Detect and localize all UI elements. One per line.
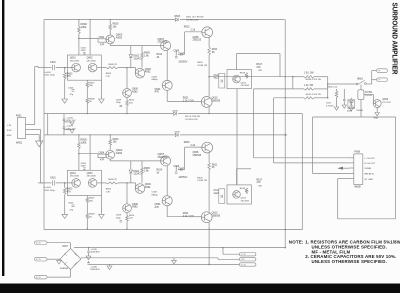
svg-text:1u,50V: 1u,50V (44, 187, 51, 189)
P608 pin stubs (349, 157, 354, 159)
svg-text:47P: 47P (100, 159, 105, 162)
wire AC1 to bridge (47, 242, 71, 244)
vertical x=253.5 to P608 pin1 (253, 89, 255, 158)
ground at AC2 (58, 259, 60, 260)
svg-text:2SD525: 2SD525 (193, 39, 202, 42)
svg-text:D605: D605 (175, 16, 181, 18)
resistor R602B 100k (78, 142, 81, 149)
wire cap to base (56, 182, 72, 184)
svg-text:2SB595: 2SB595 (212, 99, 221, 102)
svg-text:100p: 100p (116, 102, 122, 104)
wire Q610B collector to rail (208, 223, 210, 229)
svg-text:0.10R 1W: 0.10R 1W (197, 65, 208, 67)
wire to P608 pin5 y=178.6 (338, 178, 350, 180)
svg-text:L IN: L IN (7, 125, 11, 127)
P608 pin 3 arrow (337, 167, 343, 170)
capacitor C605B 47p (72, 205, 75, 206)
transistor Q607A 2SC2911 (161, 41, 171, 51)
svg-text:2SC1845: 2SC1845 (87, 60, 97, 62)
svg-text:M601: M601 (357, 79, 363, 81)
wire AC3 to bridge (47, 276, 71, 278)
loop bottom wire y=218.8 (338, 218, 396, 220)
ground on center rail (173, 258, 175, 261)
wire emitter Q602A to current mirror y=45.6 (109, 44, 111, 46)
svg-text:1.2k, 5W: 1.2k, 5W (304, 85, 314, 87)
svg-text:P601: P601 (16, 114, 22, 117)
emitter resistors R607 R608 A (86, 80, 88, 82)
power pill V- (239, 263, 256, 266)
ground C635 (86, 256, 91, 260)
wire VAS output channel B y=168.8 (237, 168, 251, 170)
transistor Q602A A992 (106, 35, 115, 44)
svg-text:47K: 47K (67, 75, 72, 78)
svg-text:R IN: R IN (7, 130, 12, 132)
svg-text:2SC2911: 2SC2911 (158, 41, 168, 44)
power pill GND (239, 258, 256, 261)
output junction x=327.7 (327, 77, 329, 98)
wire base bias y=38.4 (79, 153, 98, 155)
svg-text:0.10R 1W: 0.10R 1W (197, 180, 208, 182)
wire cap to base (56, 67, 72, 69)
svg-text:C7K: C7K (106, 76, 111, 78)
svg-text:2SC1845: 2SC1845 (241, 85, 250, 87)
wire V+ feed x=90.1 (89, 135, 91, 170)
wire to P608 pin4 y=173.5 (313, 173, 350, 175)
emitter resistor wire C y=97.8 (274, 97, 304, 99)
ground R640 (334, 107, 338, 110)
input wire (38, 182, 52, 184)
svg-text:C608: C608 (152, 76, 158, 78)
output node wire y=76.7 channel A (209, 76, 293, 78)
svg-text:2.2k: 2.2k (191, 29, 196, 32)
channel A: wire V+ feed x=78.9 (78, 20, 80, 27)
bridge rectifier D607 (60, 249, 81, 270)
wire coil to Q605 (364, 94, 374, 96)
capacitor C604B (boxed film) (98, 154, 106, 157)
ground right leg B (99, 214, 105, 218)
svg-text:C608: C608 (152, 192, 158, 194)
transistor Q612B bias 2SC1845 (233, 191, 241, 199)
svg-text:A78: A78 (155, 206, 160, 209)
svg-text:6DBN44: 6DBN44 (60, 268, 69, 270)
wire bias box top (236, 54, 238, 70)
channel B V+ rail y=134.9 (44, 134, 175, 136)
svg-text:1u,50V: 1u,50V (44, 72, 51, 74)
ground arrow below P601 (38, 135, 40, 142)
transistor Q607B 2SC2911 (161, 156, 171, 166)
input dropper channel B x=40.6 (40, 130, 42, 183)
svg-text:R610: R610 (129, 100, 135, 102)
ground C620 (64, 121, 72, 123)
svg-text:R640 2.2k: R640 2.2k (327, 86, 338, 88)
svg-text:1.8k: 1.8k (144, 54, 149, 57)
svg-text:8200/63V: 8200/63V (90, 252, 100, 254)
transistor Q601B 2SC1845 (72, 179, 81, 188)
output column x=209.1 (208, 38, 210, 47)
wire Q610A collector to rail (208, 107, 210, 113)
svg-text:2.2k 1/2W: 2.2k 1/2W (183, 215, 195, 218)
svg-text:RY601: RY601 (365, 92, 373, 94)
svg-text:C605: C605 (68, 87, 74, 89)
transistor Q603A 2SC1845 (88, 63, 97, 72)
svg-text:R604: R604 (106, 73, 112, 75)
svg-text:R641 4.22k 1W: R641 4.22k 1W (306, 94, 322, 96)
resistor R630A 10k on collector (109, 20, 111, 24)
scan artifact: black bar bottom (0, 284, 400, 293)
transistor Q605 relay driver (373, 100, 381, 108)
svg-text:C607: C607 (178, 52, 184, 55)
svg-text:+C635: +C635 (90, 249, 97, 251)
svg-text:R609 7K: R609 7K (109, 179, 118, 181)
svg-text:47K: 47K (258, 185, 262, 187)
svg-text:R639 4.22k 1W: R639 4.22k 1W (306, 79, 322, 81)
transistor Q608B output NPN (202, 142, 213, 153)
svg-text:1.8k: 1.8k (144, 170, 149, 173)
wire diff box right leg (100, 80, 102, 99)
wire base Q610A (188, 100, 201, 102)
transistor Q609B A992 (135, 183, 137, 189)
speaker feed wire y=84 (328, 83, 356, 85)
vertical x=302.3 bus1 to bus3 (301, 114, 303, 230)
svg-text:A992: A992 (145, 71, 151, 74)
signal wire to VAS (97, 182, 106, 184)
relay supply wire y=117 (313, 116, 396, 118)
scan artifact: black strip left edge (2, 0, 4, 276)
svg-text:C602 100p: C602 100p (44, 190, 55, 192)
svg-text:100p: 100p (116, 218, 122, 220)
loop vertical x=337.7 (337, 179, 339, 219)
svg-text:1.0U, 5W: 1.0U, 5W (304, 73, 314, 75)
diode D605 on V+ rail (175, 18, 178, 21)
transistor Q603B 2SC1845 (88, 179, 97, 188)
mains pill connector AC1 (35, 241, 48, 245)
resistor R603B 47K to ground (64, 183, 66, 188)
capacitor C635 8200/63V (88, 248, 90, 251)
wire to terminal CN2 (372, 79, 377, 81)
diode block D604 (boxed) (348, 100, 355, 109)
terminal riser x=371.7 (371, 71, 373, 84)
transistor Q604A driver PNP (162, 80, 172, 90)
svg-text:1S2473: 1S2473 (133, 57, 142, 60)
svg-text:L CH OUT: L CH OUT (365, 158, 376, 160)
svg-text:+C621: +C621 (66, 126, 73, 128)
channel B: wire V+ feed x=78.9 (78, 135, 80, 142)
wire Q607 to Q604 A (166, 51, 168, 81)
ground D611 (349, 108, 353, 111)
capacitor C601A input 1uF (53, 65, 55, 70)
svg-text:+C620: +C620 (66, 117, 73, 119)
svg-text:UNLESS OTHERWISE SPECIFIED.: UNLESS OTHERWISE SPECIFIED. (312, 259, 387, 264)
negative rail y=264.4 (89, 263, 240, 265)
transistor Q609A A992 (135, 68, 137, 74)
svg-text:1S2473: 1S2473 (133, 173, 142, 176)
svg-text:R CH OUT: R CH OUT (365, 163, 376, 165)
transistor Q610A output PNP (201, 97, 212, 108)
vertical x=273.6 to P608 pin2 (273, 98, 275, 163)
wire bias box top (236, 169, 238, 185)
svg-text:2SD525: 2SD525 (193, 154, 202, 157)
P601 pin stubs (26, 124, 35, 126)
jog to pill V+ (222, 248, 224, 255)
resistor R611B 56 (208, 162, 211, 170)
center rail y=257.8 (81, 257, 218, 259)
transistor Q612A bias 2SC1845 (233, 75, 241, 83)
capacitor C621 47u decoupling (63, 127, 66, 128)
wire AC2 to bridge (47, 258, 60, 260)
output column x=209.1 (208, 153, 210, 162)
svg-text:C601: C601 (50, 177, 56, 180)
capacitor C620 47u decoupling (63, 114, 65, 135)
resistor R609B 7K in line (106, 182, 118, 184)
wire base Q608B (185, 146, 202, 148)
svg-text:R619: R619 (240, 188, 246, 190)
wire Q604 emitter A (166, 90, 168, 101)
wire base Q608A (185, 31, 202, 33)
V+ rail top y=19.6 (44, 19, 175, 21)
svg-text:8200/63V: 8200/63V (90, 269, 100, 271)
vertical x=312.6 relay feed (312, 117, 314, 174)
svg-text:C6 3W 6.2W: C6 3W 6.2W (185, 119, 198, 121)
svg-text:W601: W601 (16, 142, 23, 145)
capacitor C604A (boxed film) (98, 39, 106, 42)
svg-text:100k: 100k (81, 140, 87, 144)
resistor R605A 1.8k (141, 46, 143, 52)
svg-text:R623: R623 (184, 141, 190, 144)
svg-text:C609: C609 (116, 215, 122, 217)
wire base Q610B (188, 216, 201, 218)
connector P601 (input) (18, 118, 26, 139)
node base bias (78, 153, 80, 155)
power pill V+ (239, 253, 256, 256)
capacitor C606B (178, 169, 185, 171)
transistor Q610B output PNP (201, 212, 212, 223)
svg-text:+C636: +C636 (90, 266, 97, 268)
wire contact to terminals (366, 83, 372, 85)
wire to terminal CN1 (372, 70, 377, 72)
bias network box (227, 70, 251, 89)
svg-text:NOTE:: NOTE: (289, 240, 304, 245)
frame left border (43, 20, 45, 230)
output column channel B to PSU rail (208, 230, 210, 265)
svg-text:D6048: D6048 (356, 110, 363, 112)
svg-text:Q603: Q603 (87, 172, 94, 175)
wire Q607 to Q604 B (166, 166, 168, 196)
bias network box (227, 185, 251, 204)
svg-text:47P: 47P (100, 43, 105, 46)
svg-text:A992: A992 (116, 36, 123, 40)
ground right leg A (99, 99, 105, 103)
svg-text:SURROUND AMPLIFIER: SURROUND AMPLIFIER (391, 3, 398, 75)
capacitor C601B input 1uF (53, 180, 55, 185)
svg-text:A992: A992 (145, 186, 151, 189)
connector P608 (354, 154, 363, 185)
wire x=184.6 to C606B (184, 147, 186, 170)
transistor Q602B A992 (106, 150, 115, 159)
relay coil RY601 (358, 90, 364, 100)
svg-text:C6 3W 6.2W: C6 3W 6.2W (186, 20, 199, 22)
svg-text:R609 7K: R609 7K (109, 64, 118, 66)
svg-text:D606: D606 (173, 110, 179, 112)
svg-text:47K: 47K (258, 70, 262, 72)
svg-text:W608: W608 (354, 186, 361, 189)
ground C621 (64, 129, 72, 131)
svg-text:AC IN: AC IN (36, 242, 41, 245)
svg-text:R619: R619 (240, 73, 246, 75)
svg-text:GND: GND (373, 118, 378, 120)
emitter resistors R607 R608 B (86, 196, 88, 198)
svg-text:R610: R610 (129, 215, 135, 217)
stub joining wires A-B (292, 77, 294, 89)
svg-text:D605: D605 (175, 132, 181, 134)
diode D602B (130, 161, 132, 169)
svg-text:Q605: Q605 (382, 99, 388, 101)
svg-text:A992: A992 (132, 206, 138, 209)
svg-text:HT GND: HT GND (365, 179, 374, 181)
wire V+ feed x=90.1 (89, 20, 91, 55)
diode D602A (130, 46, 132, 54)
svg-text:C617: C617 (326, 103, 332, 105)
svg-text:C601: C601 (50, 61, 56, 64)
svg-text:6800p: 6800p (152, 195, 159, 197)
wire emitter Q602B to current mirror y=45.6 (109, 159, 111, 161)
svg-text:AC IN: AC IN (36, 258, 41, 261)
svg-text:C609: C609 (116, 99, 122, 101)
terminal SP- pill (377, 78, 388, 82)
resistor R603A 47K to ground (64, 68, 66, 73)
wire VAS base (126, 183, 128, 204)
main vertical bus x=285.2 (284, 20, 286, 248)
emitter resistor wire B y=88.9 (254, 88, 305, 90)
svg-text:R623: R623 (184, 26, 190, 29)
svg-text:C604: C604 (99, 36, 105, 39)
differential pair box (67, 55, 101, 80)
vertical x=237 bias link (236, 89, 238, 185)
diode D606 on bus1 (174, 112, 177, 115)
svg-text:2SC2911: 2SC2911 (158, 156, 168, 159)
junction dots on buses (87, 113, 88, 114)
svg-text:A992: A992 (132, 90, 138, 93)
capacitor C607B 100/50V (175, 166, 177, 171)
svg-text:47K: 47K (67, 191, 72, 194)
resistor R605B 1.8k (141, 161, 143, 167)
wire Q604 emitter B (166, 206, 168, 217)
wire cap to Q602B (105, 153, 107, 155)
node base bias (78, 38, 80, 40)
signal wire to VAS (97, 67, 106, 69)
transistor Q606A VAS A992 (123, 89, 132, 98)
svg-text:C604: C604 (99, 151, 105, 154)
svg-text:DKMB: DKMB (365, 168, 372, 170)
svg-text:2.2k 1/2W: 2.2k 1/2W (183, 100, 195, 103)
ground below R603A (62, 99, 68, 103)
svg-text:C7K: C7K (106, 191, 111, 193)
ground Q605 emitter (376, 108, 378, 113)
terminal SP+ pill (377, 69, 388, 73)
svg-text:D607: D607 (63, 246, 69, 248)
relay contact M601 (356, 83, 358, 85)
V- rail (bus1) y=113.6 (44, 113, 173, 115)
svg-text:100/50V: 100/50V (178, 176, 187, 179)
resistor R610A 220 (126, 97, 128, 100)
resistor R609A 7K in line (106, 67, 118, 69)
svg-text:2SC1845: 2SC1845 (70, 176, 80, 178)
svg-text:4.7/50V: 4.7/50V (326, 105, 334, 107)
wire cap to Q602A (105, 37, 107, 39)
wire to P608 pin2 y=162.9 (274, 162, 350, 164)
svg-text:D611: D611 (347, 111, 353, 113)
svg-text:R626: R626 (197, 62, 203, 64)
svg-text:A992: A992 (116, 151, 123, 155)
transistor Q601A 2SC1845 (72, 63, 81, 72)
resistor R610B 220 (126, 213, 128, 216)
capacitor C606A (178, 53, 185, 55)
resistor R602A 100k (78, 27, 81, 34)
svg-text:2SC1845: 2SC1845 (70, 60, 80, 62)
wire diff box right leg (100, 196, 102, 215)
svg-text:C607: C607 (178, 168, 184, 171)
svg-text:C606: C606 (174, 165, 180, 168)
positive rail y=247.6 (74, 247, 286, 249)
svg-text:D8 C6 17M 4W: D8 C6 17M 4W (185, 116, 201, 118)
channel B V- rail (bus3) y=229.6 (44, 229, 302, 231)
svg-text:P608: P608 (354, 151, 360, 154)
capacitor C605A 47p (72, 90, 75, 91)
svg-text:2.2k: 2.2k (191, 144, 196, 147)
ground right of C636 (109, 264, 111, 266)
svg-text:C605: C605 (68, 203, 74, 205)
loop right vertical x=395.6 (395, 117, 397, 219)
capacitor C617 4.7/50V (343, 89, 345, 99)
resistor R640 2.2k (336, 89, 338, 91)
svg-text:2SC1845: 2SC1845 (87, 176, 97, 178)
differential pair box (67, 170, 101, 195)
svg-text:C606: C606 (174, 50, 180, 53)
svg-text:GND: GND (7, 135, 12, 137)
wire base bias y=38.4 (79, 37, 98, 39)
wire to P608 pin1 y=157.8 (254, 157, 350, 159)
diode D607b on channel B rail (175, 133, 178, 136)
svg-text:A78: A78 (155, 91, 160, 94)
svg-text:DTC124: DTC124 (382, 102, 391, 104)
emitter resistor wire A y=76.7 (293, 76, 304, 78)
wire VAS output y=53.5 (237, 53, 280, 55)
resistor R630B 10k on collector (109, 135, 111, 139)
svg-text:47K: 47K (256, 66, 261, 69)
ground C617 (342, 105, 346, 108)
svg-text:100P: 100P (81, 50, 87, 52)
svg-text:6800p: 6800p (152, 79, 159, 81)
svg-text:RELAY B: RELAY B (365, 173, 375, 176)
svg-text:100P: 100P (81, 166, 87, 168)
svg-text:R626: R626 (197, 178, 203, 180)
mains pill connector AC2 (35, 257, 48, 261)
capacitor C636 8200/63V (88, 261, 90, 262)
svg-text:2SB595: 2SB595 (212, 215, 221, 218)
svg-text:47K: 47K (256, 181, 261, 184)
mains pill connector AC3 (35, 275, 48, 279)
wire stub x=47.7 between rails (47, 114, 49, 135)
input wire (38, 67, 52, 69)
svg-text:100k: 100k (81, 25, 87, 29)
rail1 end joins main vertical (284, 247, 286, 249)
diode D611 (350, 98, 352, 100)
input riser channel A x=34.7 (34, 67, 36, 125)
wire VAS base (126, 68, 128, 89)
svg-text:B OUT: B OUT (241, 264, 246, 266)
svg-text:C602 100p: C602 100p (44, 75, 55, 77)
transistor Q604B driver PNP (162, 196, 172, 206)
transistor Q608A output NPN (202, 27, 213, 38)
